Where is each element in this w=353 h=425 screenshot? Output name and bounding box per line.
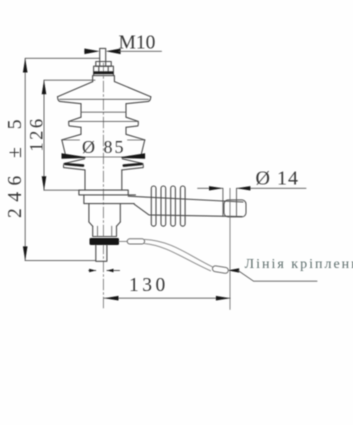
svg-text:Ø 85: Ø 85 (82, 137, 126, 157)
svg-text:130: 130 (129, 275, 169, 296)
svg-text:126: 126 (28, 116, 48, 151)
svg-text:M10: M10 (119, 33, 156, 54)
svg-text:Ø 14: Ø 14 (256, 168, 299, 190)
svg-text:246 ± 5: 246 ± 5 (5, 113, 26, 218)
svg-text:Лінія кріплення: Лінія кріплення (245, 257, 353, 272)
